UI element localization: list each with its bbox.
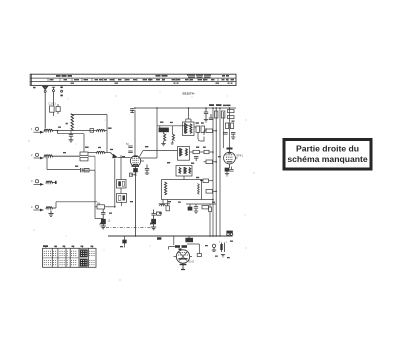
svg-text:C1 R1: C1 R1 bbox=[49, 102, 57, 106]
wire bbox=[71, 115, 107, 153]
junction node B bbox=[212, 199, 214, 201]
svg-text:2: 2 bbox=[31, 153, 33, 157]
IFT3 bottom lead bbox=[183, 176, 185, 180]
coil L8 inside frame bbox=[165, 182, 167, 195]
capacitor C4 bbox=[81, 168, 90, 172]
wire bbox=[47, 157, 80, 169]
cathode network V2 bbox=[225, 167, 234, 177]
grid resistor R10 bbox=[200, 179, 213, 182]
ground bbox=[101, 226, 106, 229]
AF coupling cluster bbox=[159, 200, 171, 211]
IF tube V2 bbox=[224, 148, 244, 169]
wire V2 plate bbox=[229, 108, 231, 148]
screen caps cluster bbox=[223, 123, 235, 140]
rectifier plate cap C12 bbox=[212, 244, 216, 251]
ground bbox=[180, 261, 195, 270]
decoupling ladder resistor R12 bbox=[204, 129, 216, 135]
coil L5 bbox=[46, 207, 56, 210]
wire bbox=[89, 155, 121, 219]
volume potentiometer VR1 bbox=[100, 218, 111, 226]
osc coil L6 bbox=[164, 134, 166, 144]
connector pins (dark) bbox=[44, 251, 95, 266]
svg-text:schéma manquante: schéma manquante bbox=[287, 154, 367, 164]
svg-text:1: 1 bbox=[31, 127, 33, 131]
svg-text:4: 4 bbox=[31, 205, 33, 209]
filter unit F2 bbox=[117, 194, 127, 207]
osc coil resistor R15 bbox=[159, 126, 169, 134]
resistor R9 bbox=[228, 110, 235, 119]
IF transformer T3 bbox=[176, 166, 192, 177]
wire coupling branch bbox=[58, 131, 85, 152]
IF transformer T1 bbox=[183, 108, 195, 136]
earth terminal bbox=[52, 87, 55, 105]
rail label blobs bbox=[209, 104, 231, 106]
missing-part notice box bbox=[284, 140, 371, 170]
ground bbox=[48, 211, 53, 217]
capacitor C9 bbox=[151, 210, 161, 218]
terminal numerals bbox=[31, 127, 33, 209]
junction blob below bus bbox=[157, 237, 161, 239]
extra component labels bbox=[58, 105, 235, 259]
mains switch S1 bbox=[227, 231, 233, 236]
detector diode cluster bbox=[186, 204, 216, 237]
svg-text:B1327A-: B1327A- bbox=[183, 91, 195, 95]
resistor R7 bbox=[190, 150, 214, 153]
osc grid caps bbox=[126, 143, 133, 153]
padder coil L7 bbox=[171, 126, 175, 144]
wire IF out bbox=[140, 151, 178, 157]
connector labels bbox=[43, 245, 93, 248]
main HT bus bbox=[108, 235, 233, 237]
junction node A bbox=[57, 130, 59, 132]
resistor R4 cluster bbox=[95, 201, 116, 209]
tone potentiometer VR2 bbox=[150, 218, 156, 228]
capacitor C3 bbox=[130, 108, 134, 113]
input terminal P1 bbox=[34, 127, 45, 133]
svg-text:12: 12 bbox=[108, 220, 111, 223]
resistor R6 bbox=[194, 126, 207, 141]
connector block K1 bbox=[43, 248, 97, 267]
bus junction dots bbox=[135, 235, 221, 237]
decoupling capacitor C11 bbox=[209, 114, 213, 120]
input terminal P4 bbox=[34, 205, 45, 211]
coil L9 inside frame bbox=[198, 184, 200, 195]
wire IF line bbox=[88, 151, 111, 153]
wire bbox=[169, 247, 176, 250]
ground bbox=[69, 140, 74, 142]
svg-text:3: 3 bbox=[31, 179, 33, 183]
capacitor C1 / resistor R1 pair bbox=[49, 102, 61, 117]
svg-text:Partie droite du: Partie droite du bbox=[296, 144, 359, 154]
wire bbox=[56, 202, 97, 208]
resistor R2 bbox=[90, 129, 108, 133]
decoupling ladder resistor R13 bbox=[204, 160, 217, 164]
svg-text:EF41: EF41 bbox=[237, 154, 244, 158]
resistor R8 bbox=[215, 111, 225, 118]
svg-text:R4: R4 bbox=[97, 201, 101, 205]
capacitor C5 bbox=[101, 209, 105, 218]
connector pins (white) bbox=[81, 251, 87, 266]
V3 grid cluster bbox=[175, 245, 187, 250]
capacitor C8 bbox=[194, 157, 198, 162]
electrolytic capacitor C13 bbox=[219, 242, 227, 252]
frame corner dot bbox=[201, 179, 203, 181]
svg-text:EL41: EL41 bbox=[189, 261, 195, 264]
decoupling capacitor C10 bbox=[204, 108, 208, 122]
wire osc top bbox=[135, 108, 236, 158]
output tube V3 bbox=[174, 250, 193, 263]
wire bbox=[58, 130, 90, 132]
ground bbox=[151, 227, 156, 230]
coil L4 bbox=[46, 181, 57, 184]
wire frame bottom to B+ ladder bbox=[202, 199, 214, 201]
B+ rail verticals bbox=[213, 108, 223, 236]
ground bbox=[221, 255, 225, 258]
cathode resistor R5 bbox=[130, 166, 138, 236]
resistor R3 bbox=[80, 152, 95, 161]
AGC dash-dot link bbox=[106, 226, 152, 228]
antenna symbol bbox=[43, 86, 48, 128]
antenna coil L2 bbox=[71, 114, 74, 134]
capacitor C6 bbox=[145, 165, 149, 175]
ladder junction dots bbox=[212, 130, 217, 192]
title table frame bbox=[30, 74, 236, 85]
wire to output tube bbox=[174, 236, 200, 254]
osc feed wire bbox=[157, 125, 190, 127]
scan speckles bbox=[28, 92, 254, 281]
converter tube V1 bbox=[129, 155, 144, 176]
node a bbox=[66, 123, 68, 125]
band filter frame bbox=[162, 180, 202, 200]
svg-text:50: 50 bbox=[126, 143, 129, 146]
decoupling ladder resistor R14 bbox=[206, 190, 216, 194]
output transformer bbox=[186, 236, 193, 242]
connector dark cells bbox=[80, 249, 88, 266]
input terminal P3 bbox=[34, 180, 45, 186]
input terminal P2 bbox=[34, 153, 45, 159]
IF transformer T2 bbox=[178, 147, 190, 161]
table header text bbox=[56, 74, 229, 78]
capacitor C2 bbox=[69, 135, 73, 140]
dotted pegs bbox=[60, 86, 62, 96]
junction dots on top rail bbox=[134, 107, 230, 109]
grid stopper R11 bbox=[197, 254, 201, 257]
table column ticks row1 bbox=[48, 78, 228, 81]
coil L1 bbox=[44, 129, 58, 132]
grid entry arrow bbox=[111, 153, 131, 159]
ground bbox=[161, 144, 165, 146]
wire grid vertical bbox=[134, 110, 136, 156]
dial lamp tap bbox=[123, 236, 127, 248]
filter unit F1 bbox=[117, 180, 127, 189]
coil L3 bbox=[44, 155, 80, 158]
